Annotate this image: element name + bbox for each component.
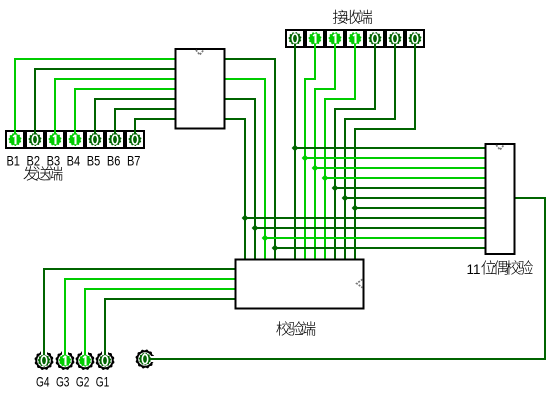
svg-text:B4: B4 [67,153,81,169]
svg-text:B1: B1 [6,153,20,169]
svg-text:G2: G2 [76,374,90,390]
svg-text:B3: B3 [47,153,61,169]
svg-text:G3: G3 [56,374,70,390]
svg-text:G4: G4 [36,374,50,390]
svg-text:B6: B6 [107,153,121,169]
svg-text:G1: G1 [96,374,110,390]
svg-text:11: 11 [467,261,481,277]
svg-text:B2: B2 [27,153,41,169]
svg-text:B7: B7 [127,153,141,169]
svg-text:B5: B5 [87,153,101,169]
